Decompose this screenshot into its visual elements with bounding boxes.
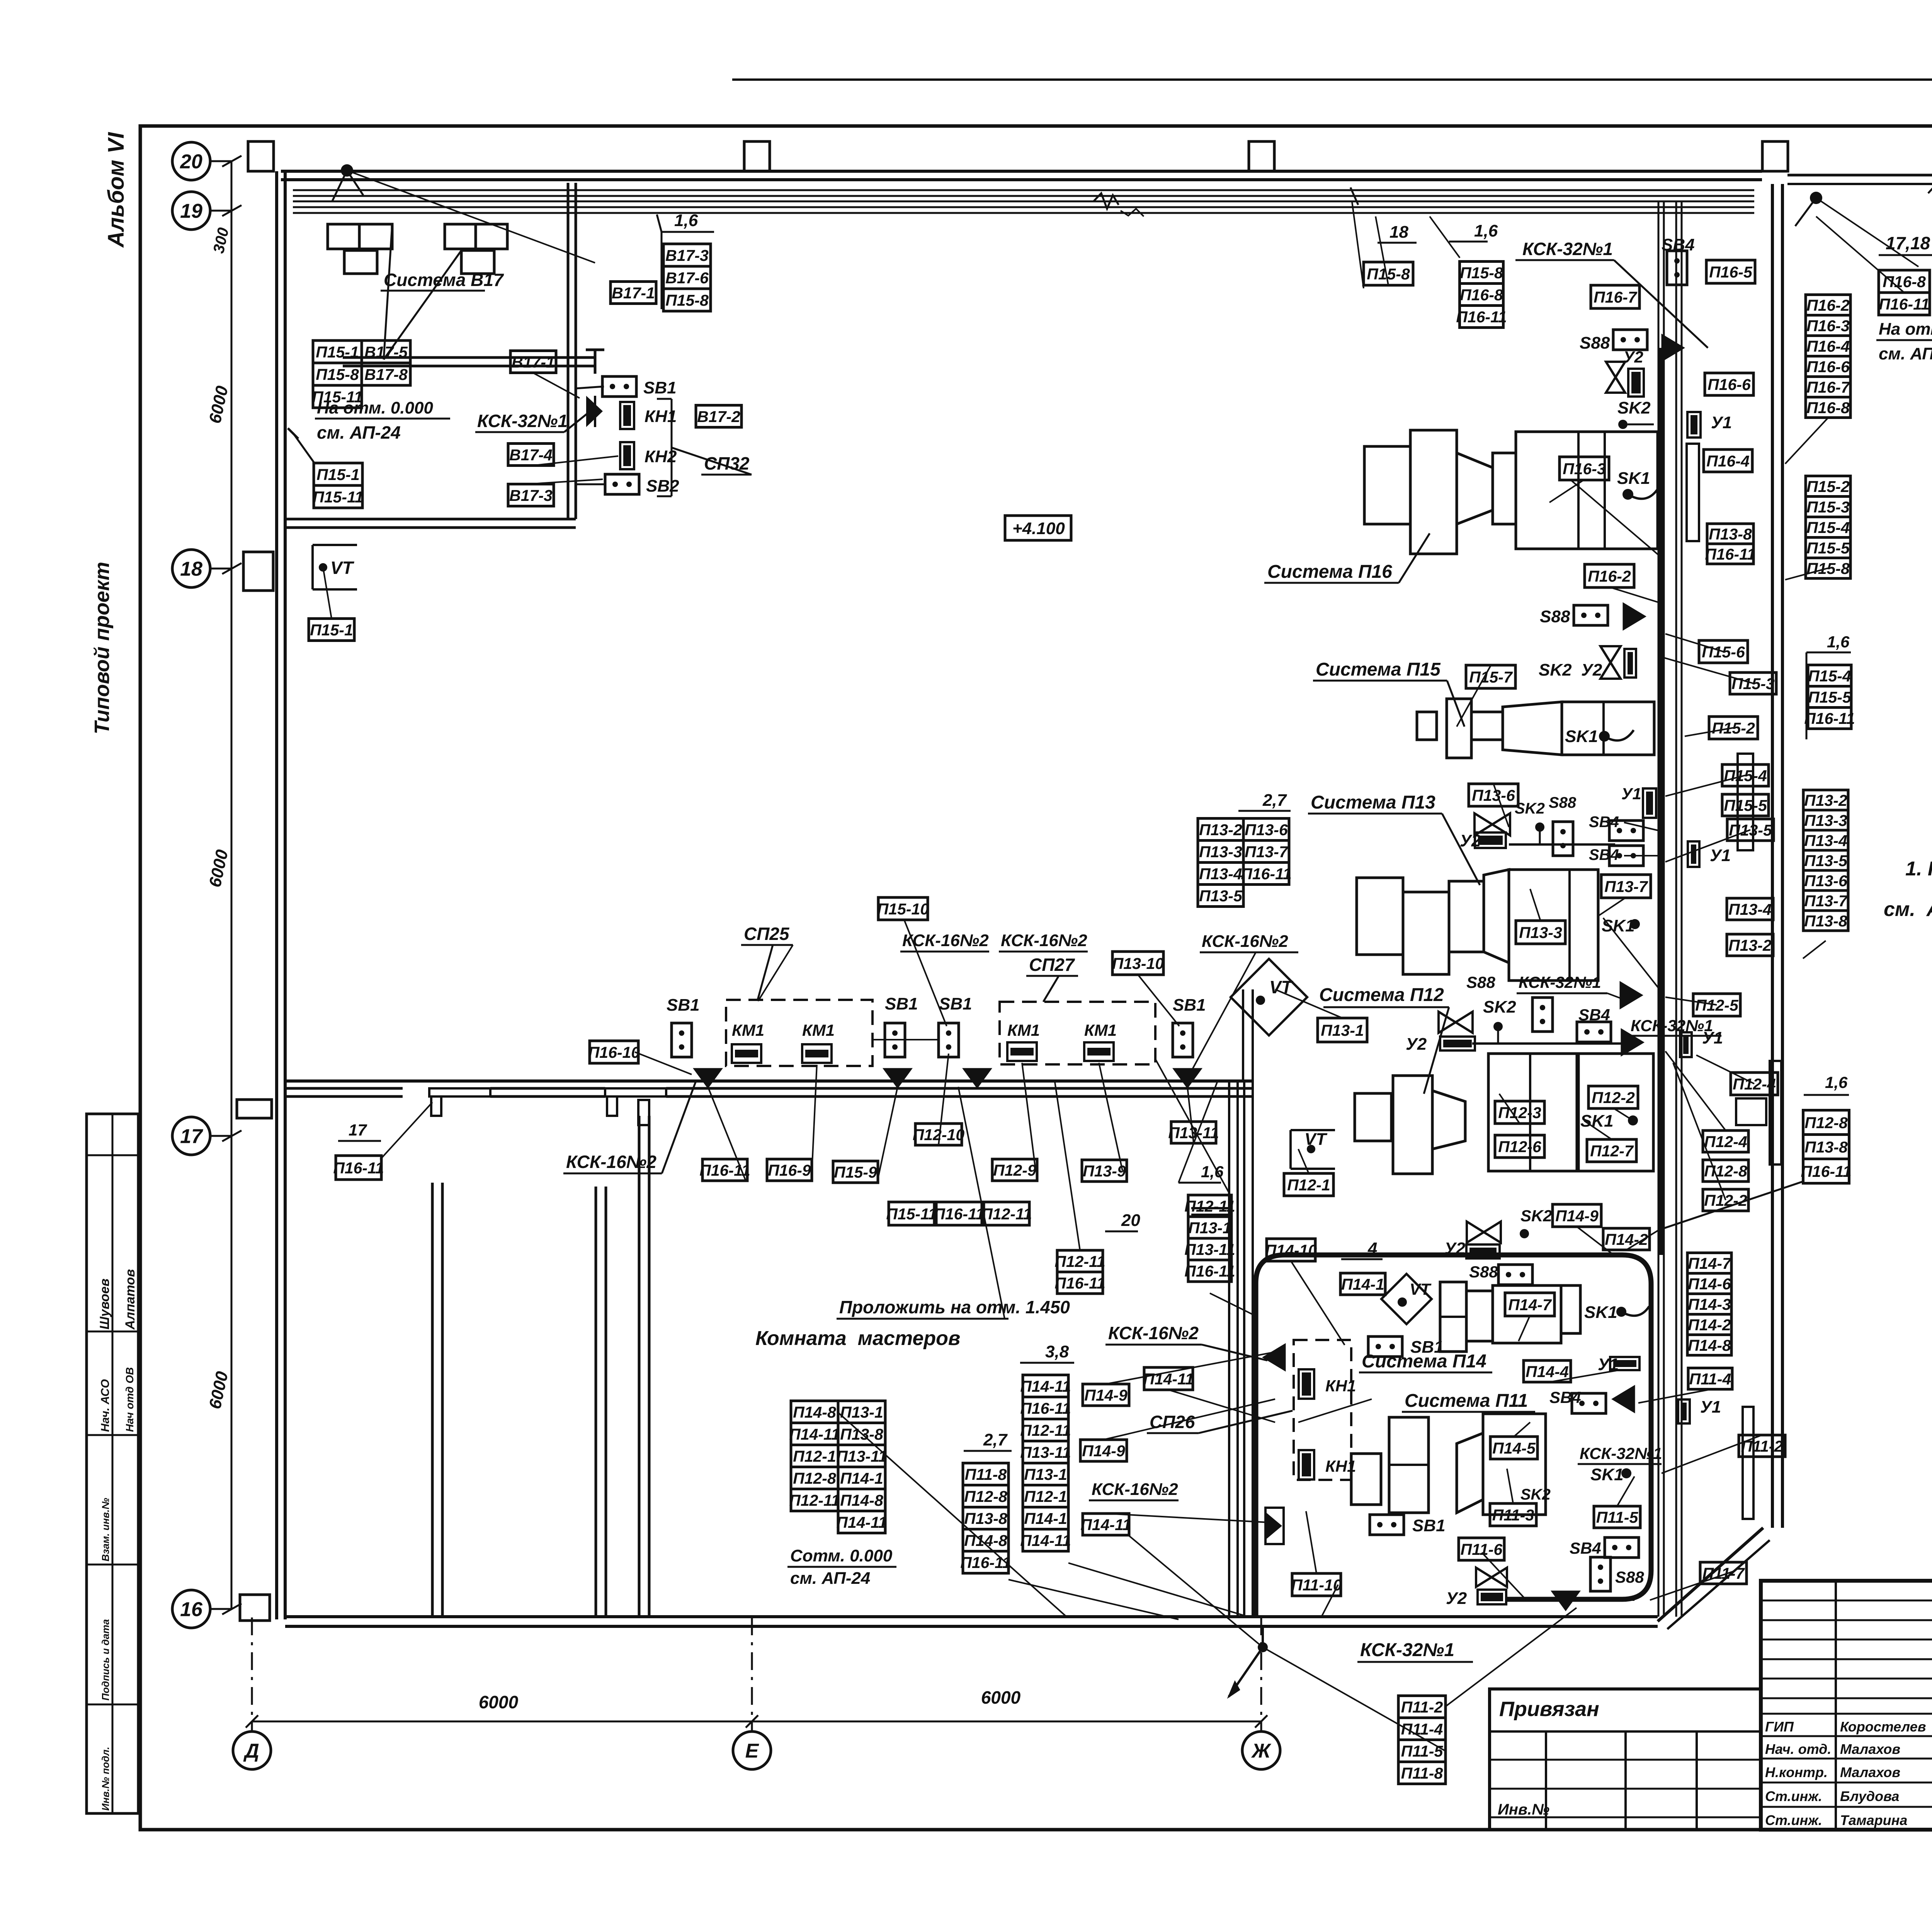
junction dot top-right	[1810, 192, 1822, 204]
svg-text:П16-11: П16-11	[1705, 545, 1755, 563]
sensor SK1 П14	[1616, 1307, 1626, 1317]
svg-text:SK2: SK2	[1520, 1207, 1552, 1225]
label box П16-11	[1241, 863, 1291, 885]
svg-text:П13-8: П13-8	[1709, 525, 1752, 543]
building left wall (double)	[277, 171, 285, 1619]
button SB1 at x2316	[885, 1023, 905, 1057]
привязан block outline	[1490, 1689, 1761, 1830]
svg-text:КМ1: КМ1	[802, 1021, 835, 1039]
svg-text:П16-7: П16-7	[1594, 288, 1638, 306]
sensor SK1 П15	[1599, 731, 1610, 742]
button SB4 П13 a	[1609, 821, 1643, 841]
svg-text:П15-7: П15-7	[1469, 668, 1513, 686]
label box П14-11	[1020, 1375, 1071, 1397]
label box П15-5	[1808, 686, 1852, 708]
svg-text:Малахов: Малахов	[1840, 1741, 1900, 1757]
svg-text:П12-8: П12-8	[1704, 1162, 1747, 1180]
svg-text:см. АП-24: см. АП-24	[1879, 344, 1932, 363]
grid17 wall segment b	[490, 1088, 605, 1096]
П11 AHU intake	[1351, 1454, 1381, 1505]
button S88 П12	[1532, 998, 1553, 1032]
label box П11-10	[1291, 1573, 1342, 1596]
label box П14-2	[1603, 1228, 1650, 1250]
junction КСК-32 П12 top	[1620, 981, 1643, 1009]
bottom dimension line	[252, 1721, 1261, 1723]
КСК-32 bottom leader	[1262, 1626, 1264, 1647]
svg-text:П13-4: П13-4	[1804, 832, 1847, 850]
svg-text:П12-9: П12-9	[993, 1161, 1036, 1179]
П12 label leader	[1424, 1007, 1449, 1094]
wall link	[1191, 1207, 1229, 1209]
label box П16-7	[1806, 377, 1850, 397]
label box В17-1	[510, 351, 556, 373]
valve У2 П14	[1467, 1222, 1501, 1243]
svg-text:Инв.№ подл.: Инв.№ подл.	[100, 1747, 111, 1811]
label box П16-6	[1705, 373, 1753, 395]
title block outline	[1761, 1581, 1932, 1830]
svg-text:П14-1: П14-1	[1341, 1275, 1384, 1293]
svg-text:На отм. 0.000: На отм. 0.000	[1879, 320, 1932, 339]
svg-text:S88: S88	[1580, 334, 1610, 352]
grid circle 17	[172, 1117, 210, 1155]
label box В17-3	[663, 244, 711, 266]
starter КМ1 at x1932	[732, 1044, 761, 1063]
label box П12-11	[789, 1489, 840, 1511]
junction КСК-16 at x2323	[883, 1068, 912, 1088]
svg-text:П14-11: П14-11	[1020, 1377, 1071, 1395]
svg-text:П12-1: П12-1	[1287, 1176, 1330, 1194]
КСК-32 bottom arrow	[1229, 1647, 1263, 1697]
привязан row line	[1490, 1788, 1761, 1790]
label box П13-7	[1243, 841, 1289, 863]
svg-text:SB4: SB4	[1589, 846, 1619, 863]
actuator У2 П15	[1624, 649, 1636, 678]
title sign row line	[1761, 1678, 1932, 1680]
grid17 wall pier T 1	[429, 1088, 490, 1096]
label box П11-7	[1700, 1562, 1747, 1584]
svg-text:П13-7: П13-7	[1804, 892, 1848, 910]
svg-text:П11-2: П11-2	[1401, 1698, 1443, 1716]
svg-text:П14-11: П14-11	[1080, 1516, 1131, 1534]
svg-text:Шувоев: Шувоев	[97, 1279, 112, 1330]
svg-text:В17-5: В17-5	[364, 343, 408, 361]
button S88 П14	[1498, 1265, 1532, 1285]
svg-text:П13-7: П13-7	[1604, 878, 1648, 896]
svg-text:Сотм. 0.000: Сотм. 0.000	[790, 1546, 893, 1565]
label box П13-2	[1727, 934, 1773, 956]
label box П13-2	[1198, 819, 1243, 841]
junction КСК-32 П16	[1662, 334, 1685, 362]
svg-text:6000: 6000	[479, 1692, 519, 1712]
svg-text:Привязан: Привязан	[1499, 1697, 1599, 1721]
svg-text:П12-8: П12-8	[964, 1488, 1007, 1505]
svg-text:П12-1: П12-1	[1024, 1488, 1067, 1505]
П14 AHU fan	[1561, 1285, 1580, 1333]
svg-text:П16-4: П16-4	[1706, 452, 1750, 470]
button SB1 at x2455	[939, 1023, 959, 1057]
leader to П15-1 boxes	[293, 433, 315, 464]
grid17 wall notch	[638, 1100, 649, 1125]
svg-text:2,7: 2,7	[1262, 791, 1287, 810]
label box П13-8	[838, 1423, 885, 1445]
label box П15-1	[314, 463, 362, 485]
interior partition x1557	[596, 1187, 606, 1617]
label box П15-7	[1466, 665, 1515, 688]
label box П12-10	[913, 1124, 965, 1145]
привязан col line	[1696, 1731, 1698, 1830]
В17 fan unit 2	[445, 224, 476, 249]
label box П13-3	[1198, 841, 1243, 863]
svg-text:VT: VT	[1304, 1130, 1327, 1149]
label box П14-8	[1687, 1335, 1731, 1355]
label box П14-11	[789, 1423, 840, 1445]
svg-text:П13-8: П13-8	[1804, 1138, 1848, 1156]
SK1 dot П12	[1628, 1115, 1638, 1125]
label box П14-4	[1524, 1360, 1571, 1382]
П13 AHU unit box	[1509, 870, 1598, 981]
svg-text:П16-11: П16-11	[1456, 308, 1507, 326]
svg-text:П16-11: П16-11	[1184, 1262, 1235, 1280]
svg-text:П13-8: П13-8	[964, 1510, 1007, 1527]
button SB1 П11	[1370, 1515, 1404, 1535]
label box П11-4	[1398, 1718, 1446, 1740]
svg-text:В17-2: В17-2	[697, 408, 740, 426]
label box П12-1	[1284, 1173, 1333, 1196]
label box П15-4	[1722, 764, 1769, 786]
svg-text:П14-2: П14-2	[1688, 1316, 1731, 1334]
svg-text:П13-7: П13-7	[1245, 843, 1289, 861]
привязан row line	[1490, 1759, 1761, 1761]
label box П12-11	[1054, 1250, 1105, 1272]
svg-text:П13-9: П13-9	[1083, 1162, 1126, 1180]
valve У2 П15	[1600, 646, 1621, 679]
П12 corridor wall line	[1252, 1082, 1254, 1617]
conduit run line	[293, 201, 1754, 203]
svg-text:П13-4: П13-4	[1199, 865, 1242, 883]
П13 AHU duct	[1449, 881, 1484, 952]
dimension tick	[746, 1715, 758, 1728]
svg-text:П12-11: П12-11	[1020, 1422, 1071, 1439]
svg-text:П16-11: П16-11	[1054, 1274, 1105, 1292]
П11 AHU chamber	[1389, 1417, 1429, 1513]
label box П13-5	[1727, 819, 1774, 841]
svg-text:П16-11: П16-11	[1020, 1399, 1071, 1417]
СП25 dashed cabinet	[726, 1000, 872, 1066]
svg-text:3,8: 3,8	[1045, 1342, 1069, 1361]
svg-text:1,6: 1,6	[1827, 633, 1850, 651]
title sign row line	[1761, 1713, 1932, 1715]
building top wall (double)	[281, 171, 1762, 180]
label box П12-11	[1020, 1419, 1071, 1441]
label box П16-4	[1806, 336, 1850, 356]
svg-text:П16-8: П16-8	[1460, 286, 1503, 304]
svg-text:КСК-16№2: КСК-16№2	[566, 1152, 656, 1172]
label box П15-8	[1806, 558, 1850, 579]
svg-text:2,7: 2,7	[983, 1430, 1008, 1449]
label box П12-6	[1495, 1135, 1544, 1158]
riser channel line	[1675, 201, 1677, 1617]
label box П12-9	[992, 1159, 1037, 1181]
label box П11-5	[1594, 1506, 1640, 1528]
wire П11 bus	[1506, 1598, 1634, 1601]
svg-text:Ст.инж.: Ст.инж.	[1765, 1788, 1822, 1804]
П16 AHU section	[1493, 453, 1516, 524]
П13 label leader	[1442, 814, 1480, 885]
П12 AHU unit box	[1488, 1054, 1577, 1171]
svg-text:П14-6: П14-6	[1688, 1275, 1731, 1293]
17 box leader	[380, 1102, 432, 1159]
conduit run line	[293, 206, 1754, 208]
label box П16-5	[1706, 260, 1755, 283]
band break zigzag 2	[1121, 209, 1144, 216]
svg-text:П14-9: П14-9	[1555, 1207, 1599, 1225]
left dimension line	[231, 161, 233, 1609]
svg-text:У2: У2	[1623, 348, 1643, 366]
junction КСК-32 П14	[1612, 1385, 1635, 1413]
svg-text:SB1: SB1	[939, 994, 972, 1013]
title sign row line	[1761, 1758, 1932, 1760]
svg-text:19: 19	[180, 200, 202, 223]
title sign row line	[1761, 1782, 1932, 1784]
junction dot top-left	[341, 164, 353, 177]
riser channel line	[1663, 201, 1665, 1617]
СП25 leader	[757, 945, 773, 1001]
sensor SK2 dot П16	[1618, 420, 1628, 429]
svg-text:П15-1: П15-1	[316, 466, 360, 484]
svg-text:П12-8: П12-8	[793, 1469, 836, 1487]
label box П15-8	[1460, 262, 1503, 284]
svg-text:П15-5: П15-5	[1808, 688, 1852, 706]
svg-text:У2: У2	[1406, 1035, 1427, 1054]
svg-text:П13-5: П13-5	[1804, 852, 1848, 870]
svg-text:SB1: SB1	[885, 994, 918, 1013]
svg-text:SK2: SK2	[1520, 1486, 1551, 1503]
right wall pilaster 5	[1743, 1407, 1753, 1519]
assorted thin leader lines	[323, 170, 1918, 1751]
junction КСК-16 П14	[1262, 1343, 1286, 1371]
svg-text:У1: У1	[1700, 1398, 1721, 1416]
svg-text:П13-2: П13-2	[1728, 936, 1772, 954]
svg-text:У1: У1	[1710, 846, 1731, 865]
svg-text:У1: У1	[1711, 413, 1732, 432]
svg-text:Проложить на отм. 1.450: Проложить на отм. 1.450	[839, 1297, 1070, 1317]
label box П13-6	[1469, 784, 1518, 806]
title sign row line	[1761, 1806, 1932, 1808]
svg-text:SB4: SB4	[1662, 235, 1695, 254]
svg-text:П14-1: П14-1	[840, 1469, 883, 1487]
svg-text:В17-4: В17-4	[509, 446, 553, 464]
title sign row line	[1761, 1697, 1932, 1699]
svg-text:П15-11: П15-11	[313, 488, 363, 506]
svg-text:Инв.№: Инв.№	[1498, 1801, 1549, 1818]
П15 AHU unit box	[1562, 702, 1654, 755]
junction КСК-16 at x2529	[963, 1068, 992, 1088]
label box П13-10	[1112, 952, 1164, 975]
label box П16-11	[934, 1202, 984, 1225]
label box П12-2	[1703, 1189, 1748, 1211]
svg-text:1,6: 1,6	[1474, 221, 1498, 240]
svg-text:Взам. инв.№: Взам. инв.№	[100, 1498, 111, 1561]
label box П15-8	[1364, 262, 1413, 285]
actuator У1 П14	[1610, 1357, 1639, 1370]
svg-text:П16-5: П16-5	[1709, 263, 1753, 281]
П13 AHU chamber	[1403, 892, 1449, 974]
svg-text:П15-1: П15-1	[310, 621, 353, 639]
label box П13-1	[838, 1401, 885, 1423]
label box П15-1	[309, 619, 354, 641]
label box П13-8	[963, 1507, 1009, 1529]
label box П14-8	[791, 1401, 838, 1423]
label box П12-1	[1023, 1485, 1068, 1507]
svg-text:П13-3: П13-3	[1199, 843, 1242, 861]
room below В17 south wall (double)	[285, 519, 576, 528]
label box П16-11	[699, 1159, 750, 1181]
wire П13 cluster	[1509, 843, 1615, 846]
svg-text:КСК-32№1: КСК-32№1	[477, 411, 568, 431]
svg-text:П15-3: П15-3	[1731, 675, 1775, 693]
stamp column frame	[87, 1114, 138, 1813]
right wall pilaster 3	[1687, 444, 1699, 541]
actuator У2 П12	[1440, 1037, 1475, 1050]
svg-text:П15-8: П15-8	[1460, 264, 1503, 282]
label box П14-11	[1020, 1529, 1071, 1551]
svg-text:П16-11: П16-11	[960, 1554, 1011, 1571]
svg-text:П16-3: П16-3	[1806, 317, 1850, 335]
svg-text:1,6: 1,6	[1825, 1073, 1848, 1091]
label box П12-5	[1693, 994, 1740, 1016]
svg-text:В17-3: В17-3	[665, 247, 709, 264]
column pier on top wall	[744, 141, 770, 171]
VT diamond sensor П14	[1381, 1274, 1432, 1324]
П12 boxes leader	[1662, 1182, 1803, 1229]
svg-text:П16-11: П16-11	[699, 1161, 750, 1179]
label box П14-6	[1687, 1273, 1731, 1294]
svg-text:П16-8: П16-8	[1883, 273, 1926, 291]
label box П14-8	[838, 1489, 885, 1511]
svg-text:см. АП-24: см. АП-24	[317, 422, 401, 443]
svg-text:П14-11: П14-11	[1020, 1532, 1071, 1549]
stamp row line	[87, 1434, 138, 1436]
VT diamond sensor П13	[1231, 959, 1307, 1035]
svg-text:Блудова: Блудова	[1840, 1788, 1899, 1804]
svg-text:П12-3: П12-3	[1498, 1104, 1541, 1122]
1,6 drop line	[661, 232, 663, 309]
actuator У1 П14 b	[1678, 1399, 1690, 1423]
svg-text:П14-8: П14-8	[964, 1532, 1007, 1549]
label box П11-8	[1398, 1762, 1446, 1784]
label box П13-3	[1516, 921, 1565, 944]
label box П11-2	[1739, 1435, 1785, 1457]
junction КСК-16 at x3073	[1173, 1068, 1202, 1088]
label box П15-2	[1709, 717, 1758, 739]
svg-text:П14-11: П14-11	[789, 1425, 840, 1443]
valve У2 П12	[1439, 1012, 1473, 1033]
bottom-right chamfer wall	[1658, 1528, 1763, 1621]
svg-text:П13-1: П13-1	[1321, 1021, 1364, 1039]
button S88 П15	[1574, 605, 1608, 625]
svg-text:В17-6: В17-6	[665, 269, 709, 287]
svg-text:S88: S88	[1549, 794, 1577, 811]
wire П12 bus	[1472, 1042, 1623, 1045]
svg-text:П14-9: П14-9	[1084, 1386, 1128, 1404]
П12 corridor wall upper	[1242, 989, 1244, 1082]
svg-text:Д: Д	[243, 1740, 259, 1762]
svg-text:В17-1: В17-1	[512, 353, 555, 371]
label box П16-11	[1705, 544, 1755, 564]
svg-text:П13-6: П13-6	[1472, 787, 1515, 804]
sheet outer top edge line	[732, 78, 1932, 81]
svg-text:ГИП: ГИП	[1765, 1719, 1794, 1735]
label box П15-4	[1806, 517, 1850, 538]
right wall pilaster	[1770, 1061, 1781, 1165]
svg-text:П13-10: П13-10	[1112, 955, 1164, 972]
label box П15-9	[833, 1161, 878, 1183]
svg-text:+4.100: +4.100	[1012, 519, 1065, 538]
svg-text:КМ1: КМ1	[1084, 1021, 1117, 1039]
sensor SK1 П16	[1622, 489, 1633, 500]
svg-text:П14-7: П14-7	[1688, 1255, 1732, 1272]
svg-text:В17-3: В17-3	[509, 487, 553, 504]
svg-text:П16-10: П16-10	[588, 1044, 640, 1061]
starter КН1 СП26 a	[1299, 1369, 1314, 1399]
svg-text:П12-5: П12-5	[1695, 996, 1739, 1014]
starter КН1 СП26 b	[1299, 1450, 1314, 1479]
label box П15-4	[1808, 665, 1851, 686]
П14 AHU unit box	[1493, 1285, 1561, 1343]
label box П11-5	[1398, 1740, 1446, 1762]
starter КМ1 at x2844	[1084, 1042, 1114, 1061]
П15 label leader	[1447, 681, 1464, 727]
svg-text:П12-4: П12-4	[1733, 1075, 1776, 1093]
привязан row line	[1490, 1817, 1761, 1818]
svg-text:17: 17	[349, 1121, 367, 1139]
actuator У2 П11	[1478, 1590, 1506, 1604]
button SB1 В17	[602, 376, 636, 397]
sensor SK2 stem П13	[1539, 823, 1541, 844]
svg-text:SK2: SK2	[1483, 998, 1516, 1016]
svg-text:Система П13: Система П13	[1311, 792, 1435, 813]
label box П13-11	[1020, 1441, 1071, 1463]
label box П14-7	[1505, 1293, 1554, 1316]
junction КСК-32 П12	[1621, 1028, 1644, 1056]
actuator У1 П15	[1643, 788, 1656, 818]
svg-text:П13-8: П13-8	[1804, 912, 1847, 930]
label box П15-8	[663, 289, 711, 311]
svg-text:S88: S88	[1469, 1263, 1498, 1281]
dimension tick	[222, 1130, 241, 1141]
В17 room south wall (double)	[343, 358, 595, 366]
building bottom wall (double)	[285, 1617, 1658, 1626]
svg-text:SK1: SK1	[1590, 1465, 1624, 1484]
П15 AHU duct	[1471, 712, 1503, 740]
svg-text:см. АП-24: см. АП-24	[790, 1569, 870, 1588]
КН bracket	[657, 398, 672, 400]
svg-text:Система В17: Система В17	[384, 270, 504, 290]
stamp column divider	[112, 1114, 114, 1813]
svg-text:П16-6: П16-6	[1806, 358, 1850, 376]
button SB1 П14	[1368, 1336, 1402, 1357]
conduit run line	[293, 195, 1754, 197]
label box П13-5	[1198, 885, 1243, 907]
svg-text:СП32: СП32	[704, 453, 750, 473]
grid circle 18	[172, 550, 210, 587]
svg-text:П13-11: П13-11	[1020, 1444, 1071, 1461]
svg-text:П16-7: П16-7	[1806, 378, 1850, 396]
label box В17-1	[611, 282, 656, 304]
label box П14-1	[838, 1467, 885, 1489]
riser channel line	[1681, 201, 1683, 1617]
actuator У2 П16	[1628, 369, 1644, 397]
